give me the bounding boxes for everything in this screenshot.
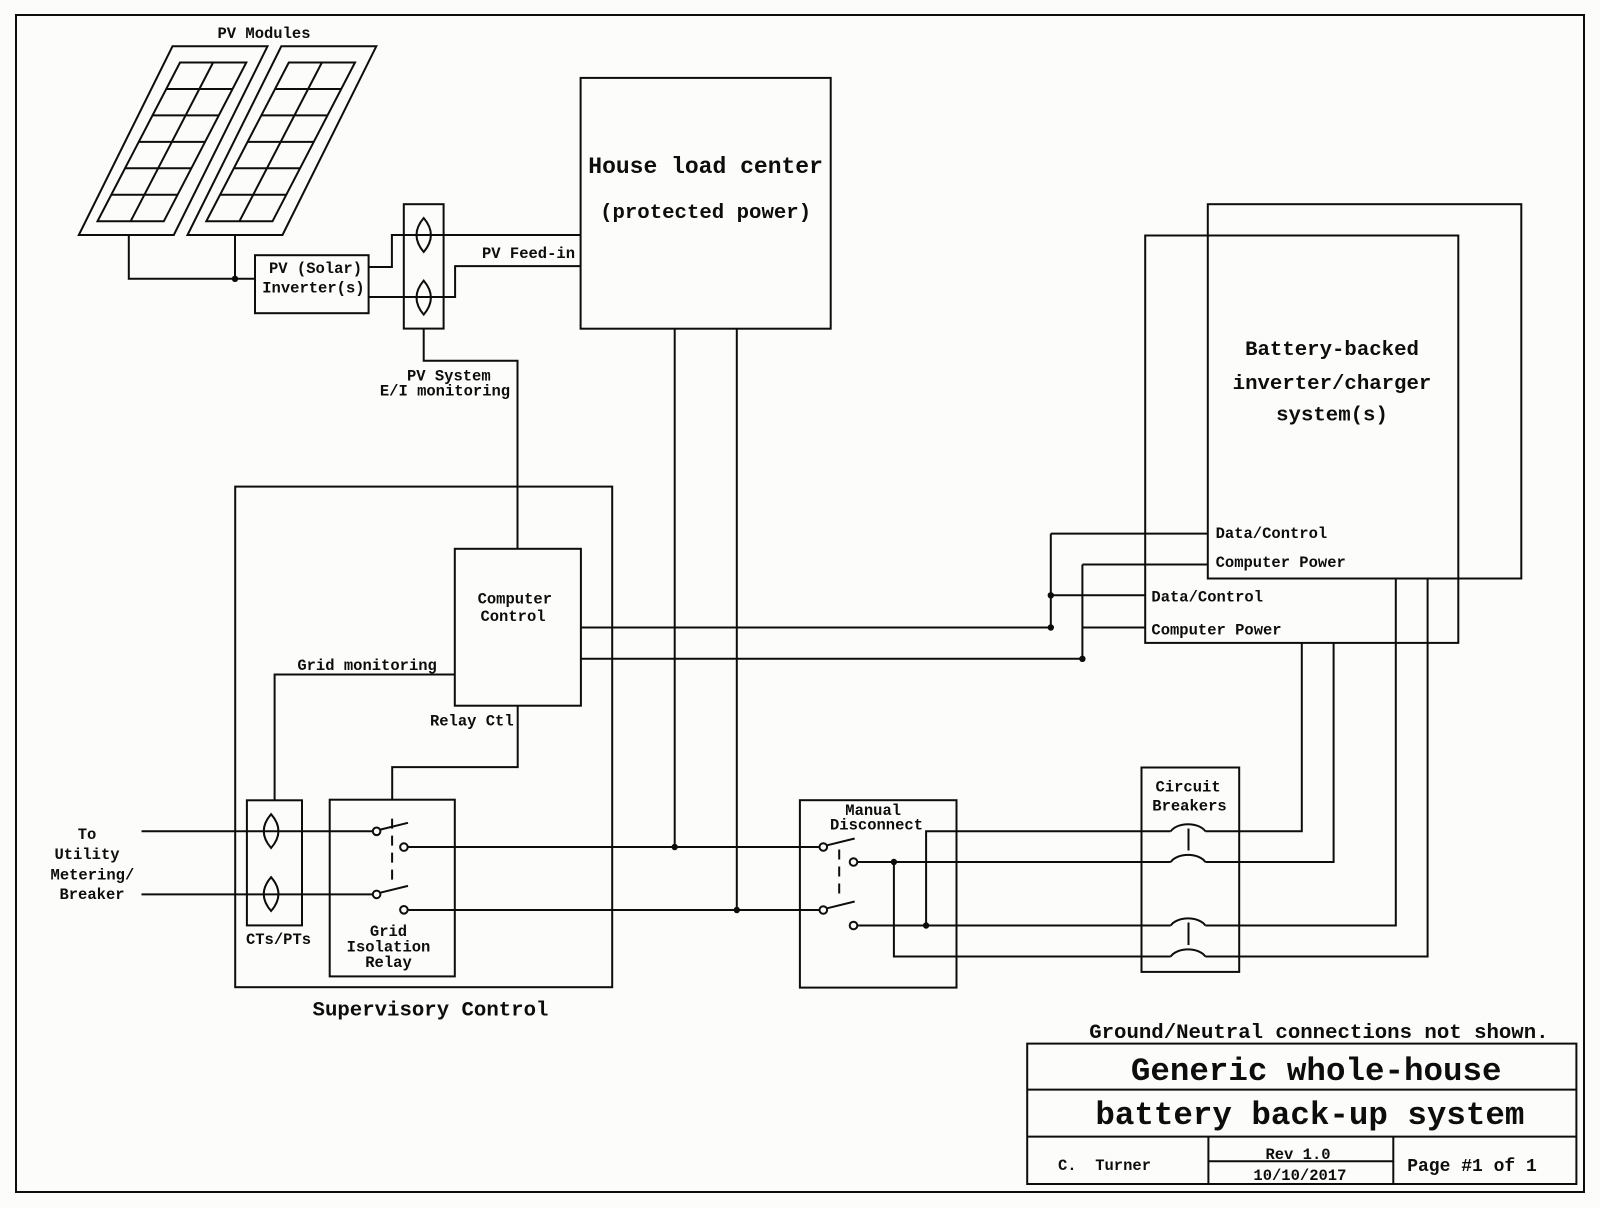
PV (Solar) Inverter(s) box xyxy=(255,255,369,313)
Grid Isolation Relay box xyxy=(330,800,455,977)
svg-text:Relay: Relay xyxy=(365,954,412,972)
junction: pole B out tap xyxy=(923,922,929,928)
junction: house phase A on relay wire xyxy=(672,844,678,850)
wire: CT monitoring to computer control xyxy=(424,329,518,549)
svg-text:Supervisory Control: Supervisory Control xyxy=(313,1000,549,1023)
relay pole B blade xyxy=(380,886,408,893)
wire: relay pole A to manual disconnect xyxy=(408,846,820,848)
svg-text:Breaker: Breaker xyxy=(59,886,124,904)
svg-text:C. Turner: C. Turner xyxy=(1058,1157,1151,1175)
CT coil utility lower xyxy=(264,877,279,911)
svg-text:system(s): system(s) xyxy=(1276,405,1388,428)
House load center box xyxy=(581,78,831,329)
relay pole A contact left xyxy=(373,828,381,836)
svg-text:(protected power): (protected power) xyxy=(600,202,811,225)
junction: computer power corner xyxy=(1079,656,1085,662)
svg-text:Computer Power: Computer Power xyxy=(1151,622,1281,640)
relay pole A contact right xyxy=(400,843,408,851)
disconnect pole A contact right xyxy=(850,858,858,866)
svg-text:Disconnect: Disconnect xyxy=(830,817,923,835)
junction: data/control corner xyxy=(1048,624,1054,630)
wire: relay pole B to manual disconnect xyxy=(408,909,820,911)
svg-text:Data/Control: Data/Control xyxy=(1216,525,1328,543)
wire: utility phase A xyxy=(142,830,373,832)
svg-text:Relay Ctl: Relay Ctl xyxy=(430,713,514,731)
junction: data/control branch xyxy=(1048,592,1054,598)
svg-text:battery back-up system: battery back-up system xyxy=(1095,1097,1524,1134)
PV module 2 xyxy=(188,46,377,235)
wire: PV module 1 to junction xyxy=(129,235,255,279)
disconnect pole B contact right xyxy=(850,922,858,930)
svg-text:PV Feed-in: PV Feed-in xyxy=(482,245,575,263)
svg-text:Computer: Computer xyxy=(478,591,552,609)
breaker 3 xyxy=(1171,918,1206,925)
breaker 2 xyxy=(1171,855,1206,862)
Circuit Breakers box xyxy=(1142,768,1240,972)
wire: data/control to front inverter xyxy=(1051,594,1145,596)
label: To Utility Metering/ Breaker xyxy=(51,826,135,904)
disconnect linkage dashed xyxy=(838,850,840,901)
Manual Disconnect box xyxy=(800,800,957,987)
svg-text:10/10/2017: 10/10/2017 xyxy=(1253,1167,1346,1185)
wire: computer power from computer control xyxy=(581,565,1083,659)
CT coil lower xyxy=(417,281,431,315)
svg-text:Data/Control: Data/Control xyxy=(1151,589,1263,607)
svg-text:Breakers: Breakers xyxy=(1152,798,1226,816)
CT sensor box (PV feed) xyxy=(404,204,444,328)
CT coil utility upper xyxy=(264,814,279,848)
svg-text:Grid monitoring: Grid monitoring xyxy=(297,657,437,675)
svg-text:To: To xyxy=(78,826,97,844)
svg-text:PV Modules: PV Modules xyxy=(217,25,310,43)
Supervisory Control box xyxy=(235,487,612,988)
wire: house phase B down xyxy=(736,329,738,910)
svg-text:House load center: House load center xyxy=(588,154,823,180)
wire: utility phase B xyxy=(142,893,373,895)
svg-text:Ground/Neutral connections not: Ground/Neutral connections not shown. xyxy=(1089,1022,1548,1045)
svg-text:Metering/: Metering/ xyxy=(51,867,135,885)
disconnect pole B blade xyxy=(827,902,855,909)
svg-text:Control: Control xyxy=(480,608,545,626)
wire: disconnect pole B out to breaker 3 xyxy=(857,925,1170,927)
wire: computer power to back inverter xyxy=(1082,564,1207,566)
svg-text:Battery-backed: Battery-backed xyxy=(1245,339,1419,362)
svg-text:Circuit: Circuit xyxy=(1156,779,1221,797)
svg-text:Inverter(s): Inverter(s) xyxy=(262,280,364,298)
svg-text:Utility: Utility xyxy=(54,846,119,864)
disconnect pole A blade xyxy=(827,839,855,846)
Battery-backed inverter back box xyxy=(1208,204,1522,578)
wire: house phase A down xyxy=(674,329,676,847)
wire: breaker 4 to back inverter xyxy=(1205,579,1427,957)
wire: breaker 2 to front inverter xyxy=(1205,643,1333,862)
svg-text:inverter/charger: inverter/charger xyxy=(1233,373,1432,396)
breaker tie bar 3-4 xyxy=(1188,923,1190,946)
svg-text:Generic whole-house: Generic whole-house xyxy=(1131,1053,1502,1090)
wire: breaker 3 to back inverter xyxy=(1205,579,1395,926)
disconnect pole A contact left xyxy=(820,843,828,851)
svg-text:PV (Solar): PV (Solar) xyxy=(269,260,362,278)
wire: inverter lower output through CT to house xyxy=(369,266,581,297)
wire: data/control from computer control xyxy=(581,534,1051,628)
PV module 1 xyxy=(79,46,268,235)
junction: house phase B on relay wire xyxy=(734,907,740,913)
wire: computer power to front inverter xyxy=(1082,627,1145,629)
Battery-backed inverter front box xyxy=(1145,236,1458,643)
svg-text:Page #1 of 1: Page #1 of 1 xyxy=(1407,1157,1537,1177)
CTs/PTs box xyxy=(247,800,302,925)
wire: breaker 1 to front inverter xyxy=(1205,643,1301,831)
wire: pole B tap up to breaker 1 feed xyxy=(926,831,1171,925)
junction: PV wires xyxy=(232,276,238,282)
wire: inverter upper output to CT xyxy=(369,235,581,267)
svg-text:Rev 1.0: Rev 1.0 xyxy=(1265,1146,1330,1164)
relay linkage dashed xyxy=(391,819,393,887)
breaker 4 xyxy=(1171,949,1206,956)
disconnect pole B contact left xyxy=(820,906,828,914)
title block frame xyxy=(1027,1044,1576,1184)
relay pole B contact right xyxy=(400,906,408,914)
junction: pole A out tap xyxy=(891,859,897,865)
wire: relay control xyxy=(392,706,518,800)
wire: grid monitoring xyxy=(275,675,455,801)
CT coil upper xyxy=(417,218,431,252)
breaker tie bar 1-2 xyxy=(1188,829,1190,851)
wire: data/control to back inverter xyxy=(1051,533,1208,535)
svg-text:CTs/PTs: CTs/PTs xyxy=(246,931,311,949)
svg-text:Computer Power: Computer Power xyxy=(1216,554,1346,572)
breaker 1 xyxy=(1171,824,1206,831)
svg-text:E/I monitoring: E/I monitoring xyxy=(380,383,510,401)
relay pole A blade xyxy=(380,823,408,830)
Computer Control box xyxy=(455,549,581,706)
wire: pole A tap down to breaker 4 feed xyxy=(894,862,1171,957)
relay pole B contact left xyxy=(373,891,381,899)
wire: PV module 2 drop xyxy=(234,235,236,279)
wire: disconnect pole A out to breaker 2 xyxy=(857,861,1170,863)
